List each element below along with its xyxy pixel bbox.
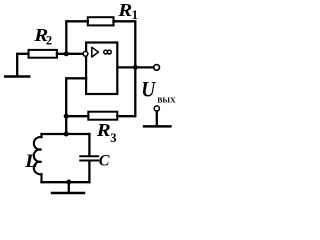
resistor R1 [88, 17, 114, 25]
ground (bottom) [52, 192, 84, 195]
node (R3 tap junction) [64, 114, 69, 119]
wire capacitor top lead [88, 134, 90, 155]
wire non-inverting input down to tank [66, 78, 86, 134]
svg-text:R: R [117, 1, 132, 20]
inductor L [34, 134, 42, 182]
node (tank top junction dot) [64, 132, 69, 137]
svg-text:R: R [96, 121, 111, 140]
svg-text:C: C [99, 152, 110, 169]
wire op-amp output [117, 66, 153, 68]
capacitor C [80, 156, 98, 182]
svg-text:2: 2 [46, 33, 52, 47]
wire R3 right up to output node [117, 67, 135, 116]
wire to R3 left [66, 115, 88, 117]
ground (lower right) [144, 125, 170, 128]
node A (junction dot) [64, 51, 69, 56]
svg-text:ВЫХ: ВЫХ [157, 96, 176, 105]
terminal (output, open circle) [154, 65, 160, 71]
ground (left, input) [5, 75, 29, 78]
svg-text:U: U [141, 78, 156, 101]
wire lower terminal to ground [156, 111, 158, 125]
svg-text:L: L [24, 151, 38, 172]
wire feedback: node A up and to R1 [66, 21, 88, 54]
wire ground tap [68, 182, 70, 192]
wire R2 input to ground [17, 54, 28, 76]
node (tank ground tap dot) [66, 180, 71, 185]
wire tank top [42, 133, 90, 135]
amplifier triangle [92, 47, 99, 57]
resistor R2 [29, 50, 57, 58]
wire node A to op-amp inverting input [57, 53, 83, 55]
inversion bubble (inverting input pin) [83, 51, 88, 56]
op-amp U1 [83, 43, 117, 95]
wire R1 right to output node [114, 21, 136, 67]
wire tank bottom [42, 181, 90, 183]
infinity gain symbol [104, 50, 108, 54]
svg-text:1: 1 [132, 8, 138, 22]
svg-text:3: 3 [110, 131, 116, 145]
node (output junction dot) [133, 65, 138, 70]
terminal (lower output, open circle) [154, 106, 159, 111]
resistor R3 [88, 112, 117, 120]
